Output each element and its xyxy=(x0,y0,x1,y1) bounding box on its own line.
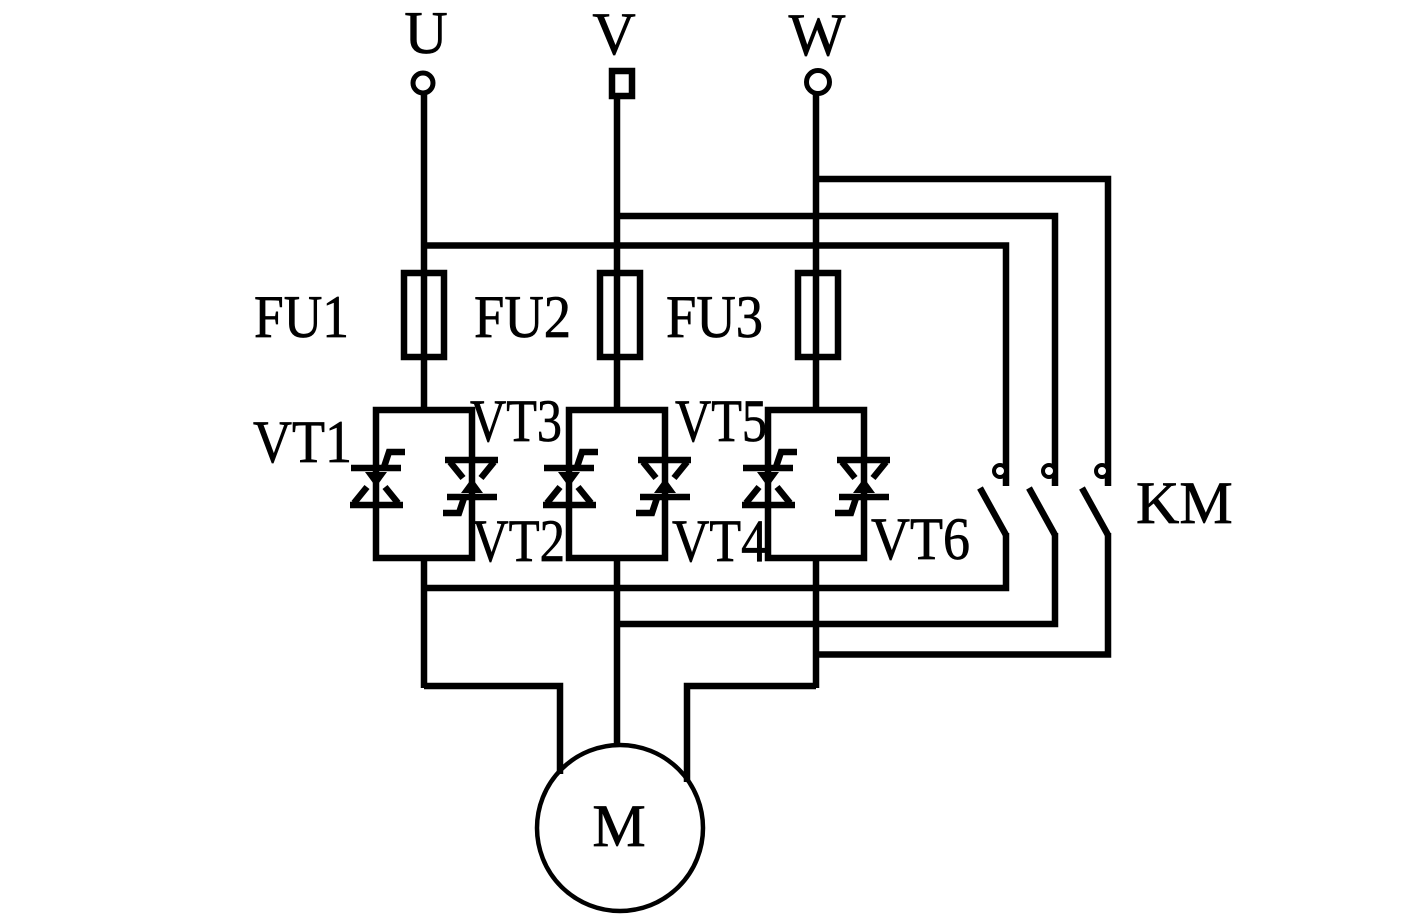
wire W branch to motor upper-right xyxy=(687,686,816,782)
svg-text:VT5: VT5 xyxy=(675,388,767,454)
wire U takeoff to KM pole 1 xyxy=(424,246,1006,487)
motor M circle xyxy=(537,745,703,911)
svg-text:VT2: VT2 xyxy=(472,508,565,574)
svg-text:W: W xyxy=(789,2,846,68)
KM contact pole 3 xyxy=(1082,465,1108,535)
wire V takeoff to KM pole 2 xyxy=(617,216,1055,486)
svg-text:V: V xyxy=(592,1,635,67)
thyristor module box 1 (VT1/VT2) xyxy=(376,410,472,558)
thyristor module box 2 (VT3/VT4) xyxy=(569,410,665,558)
wire V vertical from terminal through FU2 to VT3 box xyxy=(614,96,621,410)
svg-text:FU1: FU1 xyxy=(254,284,349,350)
svg-text:U: U xyxy=(404,0,447,66)
svg-text:VT3: VT3 xyxy=(470,388,562,454)
svg-text:VT4: VT4 xyxy=(672,508,767,574)
wire W below box 3 down to motor branch xyxy=(813,558,820,688)
KM contact pole 2 xyxy=(1029,465,1055,535)
terminal V xyxy=(612,71,632,96)
fuse FU1 xyxy=(404,273,444,357)
svg-text:VT6: VT6 xyxy=(871,506,970,572)
wire W vertical from terminal through FU3 to VT5 box xyxy=(813,92,820,410)
thyristor VT4 xyxy=(636,460,691,513)
thyristor VT2 xyxy=(443,460,498,513)
wire KM pole 2 return to V xyxy=(617,533,1055,624)
wire U branch to motor upper-left xyxy=(424,686,560,774)
wire U below box 1 down to motor branch xyxy=(421,558,428,688)
fuse FU3 xyxy=(798,273,838,357)
svg-text:FU3: FU3 xyxy=(666,284,763,350)
svg-text:VT1: VT1 xyxy=(253,409,352,475)
thyristor VT6 xyxy=(835,460,890,513)
terminal W xyxy=(807,71,830,94)
KM contact pole 1 xyxy=(980,465,1006,535)
terminal U xyxy=(413,73,433,93)
wire V below box 2 down to motor xyxy=(614,558,621,746)
wire W takeoff to KM pole 3 xyxy=(816,179,1108,486)
thyristor VT1 xyxy=(350,452,405,505)
thyristor module box 3 (VT5/VT6) xyxy=(768,410,864,558)
wire U vertical from terminal through FU1 to VT1 box xyxy=(421,93,428,410)
wire KM pole 3 return to W xyxy=(816,533,1108,655)
svg-text:M: M xyxy=(592,793,645,859)
fuse FU2 xyxy=(600,273,640,357)
svg-text:KM: KM xyxy=(1136,470,1233,536)
thyristor VT5 xyxy=(742,452,797,505)
thyristor VT3 xyxy=(543,452,598,505)
svg-text:FU2: FU2 xyxy=(474,284,571,350)
wire KM pole 1 return to U xyxy=(424,533,1006,588)
